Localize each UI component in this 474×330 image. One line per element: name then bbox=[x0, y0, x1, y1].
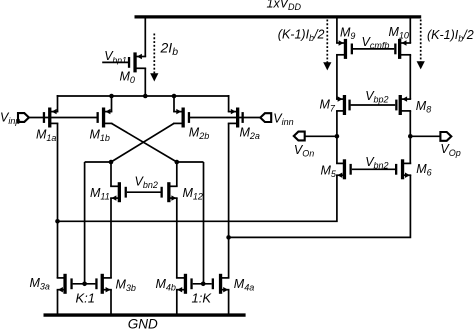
input port Vinp bbox=[18, 113, 29, 122]
output port VOp bbox=[440, 132, 451, 141]
current arrow (K-1)Ib/2 left (dashed) bbox=[323, 20, 331, 71]
wire node A1 down to M3 gates bbox=[84, 162, 86, 284]
svg-text:M4b: M4b bbox=[156, 277, 176, 293]
current arrow (K-1)Ib/2 right (dashed) bbox=[417, 20, 425, 70]
wire M10 drain to M8 source bbox=[409, 55, 411, 99]
NMOS transistor M4a bbox=[212, 274, 230, 294]
wire folded node B to M6 source bbox=[229, 175, 411, 237]
wire gate M3a-M3b bbox=[73, 283, 96, 285]
wire M9 drain to M7 source bbox=[336, 55, 338, 99]
svg-text:1xVDD: 1xVDD bbox=[267, 0, 302, 12]
wire Vinn gate line bbox=[190, 117, 261, 119]
wire Vinp gate line bbox=[29, 117, 97, 119]
NMOS transistor M11 bbox=[110, 182, 127, 202]
PMOS transistor M1a bbox=[43, 108, 59, 128]
svg-text:M3a: M3a bbox=[30, 276, 50, 292]
junction dot tail/M1b bbox=[109, 94, 114, 99]
svg-text:K:1: K:1 bbox=[76, 290, 96, 305]
wire M7 drain to VOn node to M5 drain bbox=[336, 111, 338, 163]
wire M1b source to tail bbox=[111, 95, 113, 112]
wire M3a drain-lead column continues to GND bbox=[57, 290, 59, 315]
PMOS transistor M2b bbox=[173, 108, 190, 128]
svg-text:Vbn2: Vbn2 bbox=[365, 155, 388, 171]
svg-text:M2a: M2a bbox=[240, 126, 260, 142]
wire M8 drain to VOp node to M6 drain bbox=[409, 111, 411, 163]
wire M11 source down to M3b drain bbox=[110, 198, 112, 278]
svg-text:M3b: M3b bbox=[116, 278, 136, 294]
PMOS transistor M8 bbox=[395, 95, 411, 115]
wire node A1 horizontal bbox=[85, 161, 111, 163]
svg-text:M4a: M4a bbox=[234, 277, 254, 293]
svg-text:M1b: M1b bbox=[90, 128, 110, 144]
wire M3b source to GND bbox=[110, 290, 112, 315]
svg-text:(K-1)Ib/2: (K-1)Ib/2 bbox=[278, 27, 325, 43]
svg-text:M0: M0 bbox=[120, 70, 135, 86]
wire M12 source down to M4b drain bbox=[176, 198, 178, 278]
svg-text:M1a: M1a bbox=[36, 127, 56, 143]
svg-text:M7: M7 bbox=[320, 98, 336, 114]
svg-text:M5: M5 bbox=[321, 163, 337, 179]
wire gate M7-M8 (Vbp2) bbox=[351, 104, 396, 106]
PMOS transistor M0 bbox=[128, 52, 146, 72]
wire M2b drain diagonal to node A1 bbox=[111, 123, 174, 162]
wire gate M9-M10 (Vcmfb) bbox=[353, 48, 394, 50]
NMOS transistor M3b bbox=[95, 274, 112, 294]
wire folded node A to M5 source bbox=[58, 175, 337, 221]
output port VOn bbox=[294, 132, 305, 141]
wire VOp bbox=[410, 135, 441, 137]
PMOS transistor M10 bbox=[394, 39, 411, 59]
wire M4b source to GND bbox=[176, 290, 178, 315]
wire gate M11-M12 (Vbn2) bbox=[127, 191, 161, 193]
wire M0 gate (Vbp1) bbox=[102, 61, 128, 63]
svg-text:M12: M12 bbox=[183, 186, 203, 202]
NMOS transistor M6 bbox=[395, 159, 411, 179]
NMOS transistor M4b bbox=[176, 274, 193, 294]
wire M11 drain up to node A1 bbox=[110, 161, 112, 186]
wire M2a drain column down to M4a bbox=[228, 123, 230, 278]
PMOS transistor M7 bbox=[336, 95, 351, 115]
PMOS transistor M9 bbox=[336, 39, 353, 59]
wire tail node horizontal bbox=[57, 95, 230, 97]
svg-text:Vbp1: Vbp1 bbox=[104, 49, 127, 65]
junction dot node B1 bbox=[175, 160, 180, 165]
wire node B1 down to M4 gates bbox=[203, 162, 205, 284]
svg-text:M9: M9 bbox=[340, 25, 355, 41]
wire node B1 horizontal bbox=[177, 161, 204, 163]
junction dot VOn bbox=[335, 134, 340, 139]
wire VOn bbox=[305, 135, 337, 137]
junction dot node B / M2a column bbox=[226, 235, 231, 240]
wire M0 drain to tail node bbox=[144, 68, 146, 96]
svg-text:Vinn: Vinn bbox=[273, 112, 293, 128]
junction dot node A1 bbox=[109, 160, 114, 165]
svg-text:(K-1)Ib/2: (K-1)Ib/2 bbox=[427, 28, 474, 44]
junction dot M3 gates bbox=[82, 282, 87, 287]
wire M10 source to VDD bbox=[409, 16, 411, 44]
svg-text:M6: M6 bbox=[416, 162, 431, 178]
wire M2a source to tail bbox=[228, 95, 230, 112]
svg-text:VOn: VOn bbox=[294, 143, 314, 159]
VDD power rail bbox=[135, 15, 422, 18]
svg-text:M8: M8 bbox=[416, 99, 431, 115]
junction dot M4 gates bbox=[201, 282, 206, 287]
NMOS transistor M12 bbox=[161, 182, 178, 202]
input port Vinn bbox=[260, 113, 271, 122]
wire M1a drain column down to M3a bbox=[57, 123, 59, 278]
junction dot VOp bbox=[408, 134, 413, 139]
PMOS transistor M2a bbox=[228, 108, 244, 128]
svg-text:Vbp2: Vbp2 bbox=[365, 89, 388, 105]
svg-text:M11: M11 bbox=[90, 186, 110, 202]
wire M1b drain diagonal to node B1 bbox=[112, 123, 177, 162]
wire M2b source to tail bbox=[173, 95, 175, 112]
junction dot tail/M2b bbox=[172, 94, 177, 99]
svg-text:M10: M10 bbox=[389, 25, 409, 41]
wire M0 source to VDD bbox=[144, 16, 146, 57]
wire M9 source to VDD bbox=[336, 16, 338, 44]
wire gate M4b-M4a bbox=[193, 283, 212, 285]
wire M1a source to tail bbox=[57, 95, 59, 112]
svg-text:2Ib: 2Ib bbox=[160, 39, 179, 58]
svg-text:VOp: VOp bbox=[440, 142, 460, 158]
junction dot tail/M0 bbox=[143, 94, 148, 99]
junction dot node A / M1a column bbox=[55, 219, 60, 224]
svg-text:1:K: 1:K bbox=[192, 290, 213, 305]
wire M4a source to GND bbox=[228, 290, 230, 315]
svg-text:Vbn2: Vbn2 bbox=[135, 174, 158, 190]
GND rail bbox=[44, 313, 246, 316]
svg-text:GND: GND bbox=[128, 317, 158, 330]
NMOS transistor M3a bbox=[57, 274, 73, 294]
NMOS transistor M5 bbox=[336, 159, 352, 179]
wire M12 drain up to node B1 bbox=[176, 161, 178, 186]
current arrow 2Ib (dashed) bbox=[150, 34, 158, 82]
svg-text:Vcmfb: Vcmfb bbox=[362, 35, 390, 51]
PMOS transistor M1b bbox=[97, 108, 113, 128]
wire gate M5-M6 (Vbn2) bbox=[352, 168, 395, 170]
svg-text:M2b: M2b bbox=[189, 126, 209, 142]
